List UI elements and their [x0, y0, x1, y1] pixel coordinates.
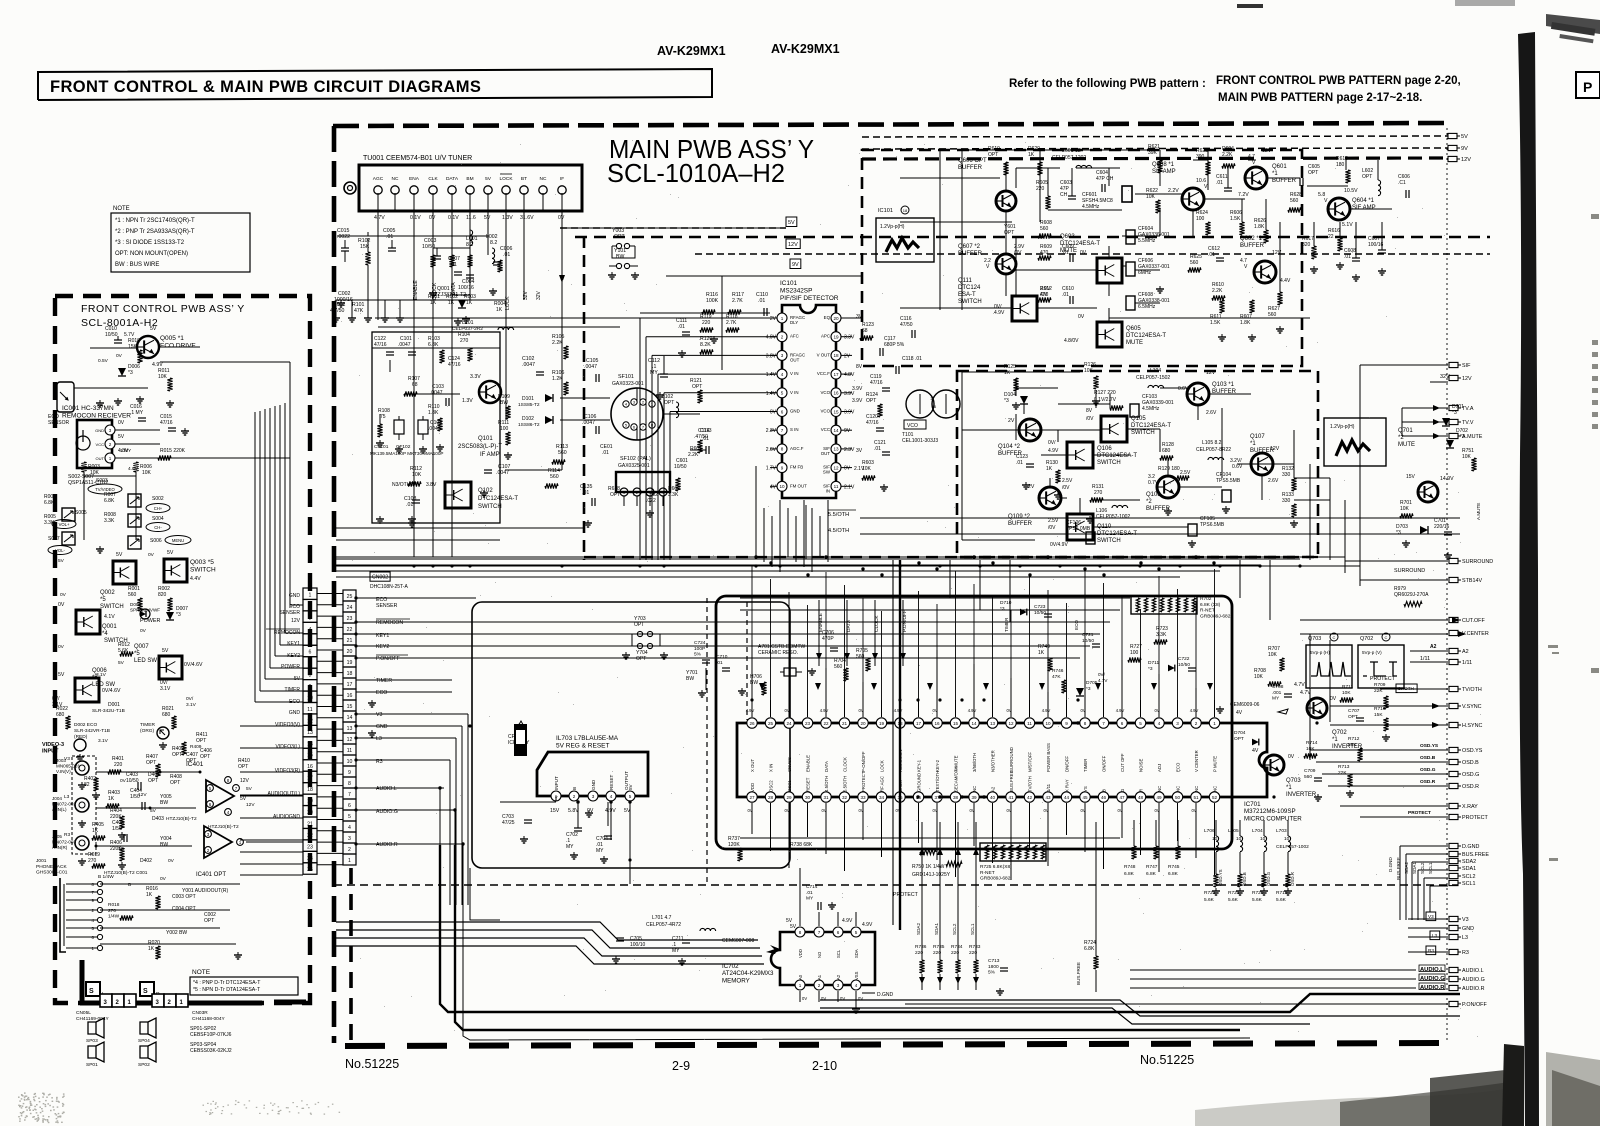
resistors R722 R721 R720 R719: [1213, 874, 1218, 887]
opamp IC401b: [204, 826, 232, 858]
svg-text:10K: 10K: [412, 472, 422, 478]
svg-text:ECO: ECO: [1074, 620, 1079, 630]
svg-text:TIMER: TIMER: [1004, 617, 1009, 632]
svg-text:0V/: 0V/: [186, 696, 194, 702]
svg-text:GND: GND: [95, 428, 104, 433]
svg-text:BW : BUS WIRE: BW : BUS WIRE: [115, 262, 159, 268]
IC101 pin 8: [777, 444, 787, 454]
svg-text:2V: 2V: [844, 353, 851, 359]
svg-text:6.8K: 6.8K: [44, 500, 55, 506]
svg-text:IF: IF: [560, 176, 564, 182]
svg-text:560: 560: [1304, 774, 1312, 780]
svg-text:1800: 1800: [988, 964, 999, 970]
svg-text:39K: 39K: [1148, 150, 1158, 156]
svg-text:1.8K: 1.8K: [1240, 320, 1251, 326]
label 4.5 5.5 OTH bus: [860, 517, 1460, 519]
svg-text:A1: A1: [817, 974, 822, 980]
svg-text:S006: S006: [150, 538, 162, 544]
svg-text:R713: R713: [1338, 764, 1350, 770]
svg-text:AGC.F: AGC.F: [790, 446, 804, 451]
svg-text:SCL1: SCL1: [1462, 881, 1476, 887]
svg-text:4.8/0V: 4.8/0V: [1064, 338, 1079, 344]
wires midrt: [1041, 429, 1101, 431]
svg-text:J005: J005: [52, 834, 62, 839]
svg-text:A.MUTE: A.MUTE: [1462, 434, 1483, 440]
svg-text:5: 5: [855, 930, 858, 935]
svg-text:GND: GND: [790, 409, 800, 414]
svg-text:NOTE: NOTE: [192, 969, 211, 976]
svg-text:R714: R714: [1306, 740, 1318, 746]
svg-text:8: 8: [227, 778, 230, 783]
svg-text:1K: 1K: [108, 796, 115, 802]
svg-text:BUFFER: BUFFER: [1008, 521, 1033, 527]
svg-text:3: 3: [207, 832, 210, 837]
svg-text:44: 44: [1064, 795, 1070, 800]
svg-text:PROTECT: PROTECT: [893, 892, 919, 898]
svg-text:TPS5.5MB: TPS5.5MB: [1216, 478, 1241, 484]
svg-text:.01: .01: [582, 490, 589, 496]
svg-text:Q005 *1: Q005 *1: [160, 335, 184, 342]
svg-text:SWITCH: SWITCH: [1131, 430, 1155, 436]
svg-text:*4 : PNP D-Tr DTC124ESA-T: *4 : PNP D-Tr DTC124ESA-T: [193, 980, 261, 986]
svg-text:*1: *1: [1250, 441, 1256, 447]
svg-text:LOCK: LOCK: [499, 176, 513, 182]
svg-text:SDA1: SDA1: [934, 923, 939, 935]
svg-text:8V: 8V: [1086, 408, 1093, 414]
svg-text:R733: R733: [969, 944, 981, 950]
ground cluster under tuner: [335, 315, 337, 318]
svg-text:24: 24: [786, 721, 792, 726]
svg-text:5V: 5V: [786, 918, 793, 924]
svg-text:10K: 10K: [1084, 368, 1094, 374]
speaker SP04: [140, 1018, 156, 1038]
overline remocon right: [376, 618, 410, 620]
svg-text:6: 6: [1121, 721, 1124, 726]
svg-text:10: 10: [1212, 836, 1218, 842]
IC703 regulator box: [537, 752, 648, 796]
svg-text:OUT: OUT: [790, 357, 800, 362]
svg-text:BW: BW: [160, 842, 168, 848]
svg-text:1: 1: [799, 983, 802, 988]
svg-text:D101: D101: [522, 396, 534, 402]
svg-text:VCO: VCO: [820, 390, 830, 395]
IC701 pin 50: [1172, 792, 1182, 802]
svg-text:R702: R702: [1200, 596, 1212, 602]
svg-text:Q101: Q101: [478, 436, 493, 442]
ground IC703 gnd pin: [588, 810, 590, 813]
svg-text:10/50: 10/50: [1178, 662, 1190, 668]
svg-text:12: 12: [833, 465, 839, 470]
svg-text:5V: 5V: [58, 672, 65, 678]
svg-text:SCL1: SCL1: [1428, 862, 1433, 874]
svg-text:.01: .01: [716, 660, 723, 666]
svg-text:5.6K: 5.6K: [1252, 897, 1263, 903]
svg-text:R745: R745: [1168, 864, 1180, 870]
connector tag TV.V: [1449, 419, 1458, 424]
svg-text:12V: 12V: [240, 778, 250, 784]
svg-text:0V: 0V: [932, 808, 937, 813]
svg-text:680: 680: [162, 712, 171, 718]
transistor Q601 BUFFER: [1245, 167, 1267, 189]
svg-text:OSD.R: OSD.R: [1420, 779, 1436, 785]
svg-text:SDA2: SDA2: [916, 923, 921, 935]
svg-text:2.6V: 2.6V: [1206, 410, 1217, 416]
svg-text:CUT OFF: CUT OFF: [1120, 753, 1125, 772]
svg-text:1K: 1K: [1028, 152, 1035, 158]
svg-text:.01: .01: [758, 298, 765, 304]
svg-text:4.7V: 4.7V: [374, 215, 385, 221]
svg-text:DTC124ESA-T: DTC124ESA-T: [1097, 453, 1137, 459]
svg-text:2.2K: 2.2K: [1222, 152, 1233, 158]
connector tag SIF: [1449, 362, 1458, 367]
svg-text:OSC2: OSC2: [769, 780, 774, 792]
5V rail top: [862, 136, 1448, 137]
svg-text:47K: 47K: [354, 308, 364, 314]
svg-text:1.5K: 1.5K: [1210, 320, 1221, 326]
svg-text:SLR-342U-T1B: SLR-342U-T1B: [92, 708, 125, 714]
jack J005: [75, 836, 89, 850]
svg-text:10K: 10K: [90, 470, 100, 476]
svg-text:OSC1: OSC1: [787, 780, 792, 792]
IC702 memory box: [771, 932, 875, 985]
resistor network R702: [1131, 596, 1197, 614]
svg-text:0.1V/2.7V: 0.1V/2.7V: [1094, 397, 1117, 403]
svg-text:1K: 1K: [146, 892, 153, 898]
svg-text:1.2Vp-p(H): 1.2Vp-p(H): [880, 224, 905, 230]
svg-text:POWER: POWER: [281, 664, 300, 670]
svg-text:0V: 0V: [1043, 808, 1048, 813]
svg-text:L104: L104: [1150, 368, 1161, 374]
svg-text:CH41168-004Y: CH41168-004Y: [192, 1016, 226, 1022]
svg-text:B: B: [128, 882, 131, 888]
svg-text:SCL2: SCL2: [952, 923, 957, 935]
svg-text:R3: R3: [1462, 950, 1469, 956]
svg-text:4: 4: [227, 810, 230, 815]
svg-text:100: 100: [1130, 650, 1139, 656]
svg-text:POWER BASS: POWER BASS: [1046, 743, 1051, 772]
verticals micro top bus: [751, 566, 753, 700]
svg-text:DTC124ESA-T: DTC124ESA-T: [1131, 423, 1171, 429]
surround bus lines: [336, 556, 1345, 558]
svg-text:*5: *5: [100, 597, 106, 603]
svg-text:OUT: OUT: [821, 451, 831, 456]
IC701 pin 37: [932, 792, 942, 802]
svg-text:X.RAY: X.RAY: [1462, 804, 1478, 810]
svg-text:CH+: CH+: [154, 506, 163, 511]
svg-text:3.1V: 3.1V: [52, 702, 63, 708]
svg-text:3.9V: 3.9V: [844, 410, 855, 416]
svg-text:4: 4: [855, 983, 858, 988]
svg-text:C: C: [1385, 635, 1388, 640]
IC101 pin 18: [831, 350, 841, 360]
svg-text:4.1V: 4.1V: [104, 614, 115, 620]
svg-text:0.1V: 0.1V: [448, 215, 459, 221]
svg-text:VIDEO3(R): VIDEO3(R): [275, 768, 301, 774]
svg-text:33: 33: [860, 795, 866, 800]
svg-text:*3: *3: [1460, 434, 1465, 440]
svg-text:25: 25: [307, 867, 313, 873]
svg-text:SPR-39MVWF: SPR-39MVWF: [130, 608, 160, 613]
svg-text:OPT: OPT: [636, 656, 646, 662]
svg-text:470P: 470P: [822, 636, 834, 642]
svg-text:3V: 3V: [856, 448, 863, 454]
svg-text:Q103 *1: Q103 *1: [1212, 382, 1235, 388]
svg-text:10: 10: [779, 484, 785, 489]
svg-text:2.1V: 2.1V: [854, 466, 865, 472]
svg-text:4.9V: 4.9V: [994, 310, 1005, 316]
svg-text:3: 3: [348, 836, 351, 842]
svg-text:5V: 5V: [118, 660, 125, 666]
wire 5V output down: [629, 802, 631, 884]
svg-text:48: 48: [1138, 795, 1144, 800]
IC701 pin 5: [1135, 718, 1145, 728]
transistor Q101 IF amp: [479, 381, 501, 403]
svg-text:8.2K: 8.2K: [700, 342, 711, 348]
svg-text:3: 3: [109, 428, 112, 433]
svg-text:Y002 BW: Y002 BW: [166, 930, 187, 936]
note: refer to PWB pattern: [1009, 75, 1461, 104]
IC702 pin 5: [851, 927, 861, 937]
svg-text:ON/OFF: ON/OFF: [1102, 755, 1107, 772]
svg-text:KEY-2: KEY-2: [935, 759, 940, 772]
svg-text:IC001 HC-337MN: IC001 HC-337MN: [62, 405, 114, 412]
svg-text:A.IN(L): A.IN(L): [52, 807, 67, 812]
svg-text:V3: V3: [64, 756, 70, 762]
svg-text:22: 22: [307, 833, 313, 839]
svg-text:LED SW: LED SW: [134, 658, 157, 664]
svg-text:OSD.R: OSD.R: [1462, 784, 1479, 790]
svg-text:9V: 9V: [792, 262, 799, 268]
svg-text:MENU: MENU: [172, 538, 184, 543]
label VCO T101: [904, 420, 926, 429]
svg-text:A2: A2: [1462, 649, 1469, 655]
svg-text:9: 9: [781, 465, 784, 470]
svg-text:GAX0323-001: GAX0323-001: [612, 381, 644, 387]
svg-text:5V: 5V: [788, 220, 795, 226]
svg-text:1: 1: [1213, 721, 1216, 726]
svg-text:1SS86-T2: 1SS86-T2: [518, 422, 540, 428]
svg-text:16: 16: [307, 764, 313, 770]
svg-text:V3: V3: [376, 712, 382, 718]
connector tag PROTECT: [1449, 814, 1458, 819]
svg-text:AUDIO.R: AUDIO.R: [376, 842, 398, 848]
svg-text:B: B: [572, 787, 577, 790]
svg-text:R-NET: R-NET: [980, 870, 995, 876]
svg-text:R712: R712: [1348, 736, 1360, 742]
svg-text:2.7K: 2.7K: [732, 298, 743, 304]
svg-text:47: 47: [1119, 795, 1125, 800]
svg-text:D402: D402: [140, 858, 152, 864]
svg-text:1K: 1K: [466, 300, 473, 306]
svg-text:100P: 100P: [694, 646, 705, 652]
wires X.RAY PROTECT: [1340, 805, 1448, 807]
IC703 pin 3: [588, 791, 598, 801]
heavy vertical x900: [899, 560, 901, 930]
wires TV tags: [1402, 407, 1448, 409]
eco sensor: [57, 382, 74, 412]
svg-text:10/50: 10/50: [1034, 610, 1046, 616]
svg-text:0V: 0V: [932, 708, 937, 713]
svg-text:22: 22: [823, 721, 829, 726]
svg-text:4.8V: 4.8V: [128, 466, 139, 472]
svg-text:2V: 2V: [1028, 484, 1035, 490]
svg-text:PIF/SIF DETECTOR: PIF/SIF DETECTOR: [780, 295, 839, 302]
svg-text:H.SYNC: H.SYNC: [1462, 723, 1482, 729]
waveform box 1.2Vpp right: [1324, 418, 1386, 466]
svg-text:0V: 0V: [784, 708, 789, 713]
svg-text:VIDEO3(V): VIDEO3(V): [275, 722, 300, 728]
inner dashed vertical border below CN002: [349, 868, 353, 1040]
svg-text:0V: 0V: [1154, 808, 1159, 813]
svg-text:IC401 OPT: IC401 OPT: [196, 872, 226, 878]
svg-text:OPT: OPT: [170, 780, 180, 786]
svg-text:SCL2: SCL2: [1420, 862, 1425, 874]
svg-text:L704: L704: [1252, 828, 1263, 834]
svg-text:V.CENTER: V.CENTER: [1462, 631, 1489, 637]
svg-text:560: 560: [1190, 260, 1199, 266]
svg-text:ESA-T: ESA-T: [958, 292, 976, 298]
svg-text:Q605: Q605: [1126, 326, 1141, 332]
svg-text:MN065-001: MN065-001: [56, 764, 80, 769]
svg-text:15V: 15V: [550, 808, 560, 814]
svg-text:0V: 0V: [747, 808, 752, 813]
svg-text:1.4V: 1.4V: [766, 372, 777, 378]
switch Q001: [76, 610, 100, 634]
svg-text:*4: *4: [102, 631, 108, 637]
transformer T101: [906, 390, 934, 418]
svg-text:GROUND: GROUND: [917, 773, 922, 792]
svg-text:4.8V: 4.8V: [844, 372, 855, 378]
svg-text:12V: 12V: [138, 792, 147, 798]
svg-text:*1 : NPN Tr 2SC1740S(QR)-T: *1 : NPN Tr 2SC1740S(QR)-T: [115, 218, 195, 224]
connector tag CUT.OFF: [1449, 617, 1458, 622]
svg-text:OPT: OPT: [172, 752, 182, 758]
svg-text:HTZJ10(B)-T2: HTZJ10(B)-T2: [208, 824, 239, 830]
connector tag OSD.YS: [1449, 747, 1458, 752]
svg-text:C004 OPT: C004 OPT: [172, 906, 196, 912]
svg-text:.01: .01: [1016, 460, 1023, 466]
svg-text:220/16: 220/16: [1434, 524, 1450, 530]
svg-text:BUS.FREE: BUS.FREE: [1009, 770, 1014, 792]
svg-text:SLR-342VR-T1B: SLR-342VR-T1B: [74, 728, 110, 734]
svg-text:*5 : NPN D-Tr DTA124ESA-T: *5 : NPN D-Tr DTA124ESA-T: [193, 987, 261, 993]
IC701 pin 41: [1006, 792, 1016, 802]
mute dashed box: [957, 371, 1318, 557]
svg-text:560: 560: [550, 474, 559, 480]
svg-text:BUS.FREE: BUS.FREE: [1462, 852, 1489, 858]
IC701 pin 32: [839, 792, 849, 802]
svg-text:7.2V: 7.2V: [1238, 192, 1249, 198]
connector tag D.GND: [1449, 843, 1458, 848]
svg-text:11: 11: [347, 748, 352, 754]
svg-text:S004: S004: [152, 516, 164, 522]
arrow marks on micro feeds: [759, 683, 765, 690]
svg-text:29: 29: [786, 795, 792, 800]
svg-text:11: 11: [834, 484, 839, 489]
connector tag AUDIO.R: [1449, 985, 1458, 990]
svg-text:V CENTER: V CENTER: [1194, 750, 1199, 772]
gutter top smear: [1546, 14, 1600, 34]
svg-text:4.7V: 4.7V: [1294, 682, 1305, 688]
jack J003: [75, 761, 89, 775]
svg-text:16: 16: [833, 391, 839, 396]
svg-text:C708: C708: [1272, 684, 1284, 690]
connector tag SURROUND: [1449, 558, 1458, 563]
svg-text:C723: C723: [1034, 604, 1046, 610]
svg-text:100/16: 100/16: [458, 285, 474, 291]
svg-text:2.5V: 2.5V: [1180, 470, 1191, 476]
key switch S002: [128, 494, 141, 507]
svg-text:Q105: Q105: [1131, 416, 1146, 422]
inner bold box around microcomputer: [716, 596, 1232, 849]
svg-text:5.5MHz: 5.5MHz: [1138, 238, 1156, 244]
IC101 pin 15: [831, 407, 841, 417]
svg-text:MY: MY: [566, 844, 574, 850]
svg-text:22: 22: [347, 627, 353, 633]
wire horizontal tuner feed: [337, 235, 489, 237]
svg-text:IC101: IC101: [878, 208, 893, 214]
IC101 pin 3: [777, 350, 787, 360]
svg-text:P: P: [1583, 79, 1592, 95]
connector tag STB14V: [1449, 577, 1458, 582]
svg-text:*3: *3: [1452, 410, 1457, 416]
svg-text:9V: 9V: [844, 428, 851, 434]
svg-text:*3: *3: [1000, 606, 1005, 612]
svg-text:SWITCH: SWITCH: [478, 504, 502, 510]
svg-text:V IN: V IN: [790, 390, 799, 395]
svg-text:8.2: 8.2: [490, 240, 497, 246]
svg-text:OPT: OPT: [148, 778, 158, 784]
svg-text:13: 13: [347, 726, 353, 732]
wire IF out: [561, 430, 563, 470]
svg-text:Q604 *1: Q604 *1: [1352, 198, 1375, 204]
IC701 pin 39: [969, 792, 979, 802]
svg-text:10: 10: [347, 759, 353, 765]
svg-text:OUT: OUT: [96, 456, 105, 461]
svg-text:7: 7: [348, 792, 351, 798]
svg-text:GRD141J-1025Y: GRD141J-1025Y: [912, 872, 951, 878]
svg-text:SCL2: SCL2: [1462, 874, 1476, 880]
svg-text:BW: BW: [686, 676, 694, 682]
svg-text:CH-: CH-: [154, 525, 162, 530]
tuner box TU001: [359, 165, 582, 211]
transistor Q604 SIF AMP: [1328, 198, 1350, 220]
svg-text:1.3V: 1.3V: [502, 215, 513, 221]
transistor Q608 SIF AMP: [1182, 188, 1204, 210]
svg-text:120K: 120K: [728, 842, 740, 848]
svg-text:10K: 10K: [1462, 454, 1472, 460]
svg-text:R709: R709: [1374, 682, 1386, 688]
svg-text:NC: NC: [1194, 786, 1199, 792]
svg-text:OPT: OPT: [146, 760, 156, 766]
svg-text:A.IN(R): A.IN(R): [52, 845, 68, 850]
IC703 pin 2: [569, 791, 579, 801]
svg-text:32: 32: [842, 795, 848, 800]
svg-text:5V: 5V: [485, 176, 492, 182]
adjacent page bottom shading: [1546, 1052, 1600, 1126]
svg-text:OSD.B: OSD.B: [1462, 760, 1479, 766]
svg-text:2SC5083(L-P)-T: 2SC5083(L-P)-T: [458, 444, 502, 450]
svg-text:8: 8: [348, 781, 351, 787]
connector tag AUDIO.L: [1449, 967, 1458, 972]
svg-text:P.ON/OFF: P.ON/OFF: [1462, 1002, 1487, 1008]
svg-text:CN002: CN002: [372, 575, 388, 581]
svg-text:SURROUND: SURROUND: [1462, 559, 1493, 565]
svg-text:.1 MY: .1 MY: [130, 410, 144, 416]
svg-text:OSD.G: OSD.G: [1266, 871, 1271, 886]
svg-text:5V: 5V: [240, 796, 247, 802]
svg-text:R748: R748: [1124, 864, 1136, 870]
